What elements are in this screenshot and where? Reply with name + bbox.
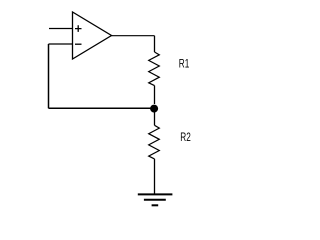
svg-text:R1: R1 — [179, 57, 190, 71]
wire: R1 bottom to node — [154, 86, 156, 104]
resistor R2 — [149, 125, 160, 159]
wire: inverting (-) input from feedback corner — [49, 43, 73, 45]
wire: output corner down to R1 — [154, 36, 156, 52]
op-amp U1 — [73, 12, 112, 59]
wire: noninverting (+) input stub — [49, 28, 73, 30]
wire: feedback bottom horizontal segment to node — [49, 107, 154, 109]
op-amp minus sign (inverting input marker) — [75, 43, 82, 45]
wire: op-amp output horizontal — [112, 35, 155, 37]
resistor R1 — [149, 52, 160, 86]
node junction dot — [150, 105, 158, 113]
op-amp plus sign (noninverting input marker) — [75, 25, 82, 32]
svg-text:R2: R2 — [180, 130, 191, 144]
wire: node down to R2 — [154, 112, 156, 125]
ground symbol — [138, 194, 173, 205]
wire: feedback left vertical segment — [48, 44, 50, 108]
wire: R2 bottom to ground — [154, 159, 156, 194]
